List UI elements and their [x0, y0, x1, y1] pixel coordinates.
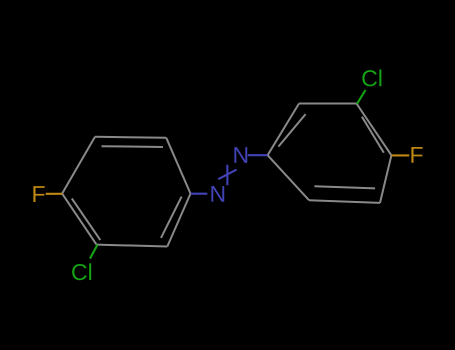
atom label Cl (right chlorine): [362, 70, 381, 87]
wire ring edge C4-C5: [62, 194, 96, 245]
wire double bond inner line C2=C3: [102, 145, 164, 148]
wire double bond inner line C4'=C5': [362, 117, 384, 153]
wire ring edge C4'-C5': [357, 104, 392, 156]
wire ring edge C1-C2: [166, 138, 190, 194]
wire ring edge C2-C3: [95, 136, 166, 139]
wire ring edge C5-C6: [97, 245, 168, 247]
wire double bond inner line C6'=C1': [278, 114, 305, 147]
wire ring edge C3'-C4': [380, 155, 391, 203]
wire ring edge C6'-C1': [268, 104, 299, 156]
bond N2-C1' (azo nitrogen to right ring): [248, 154, 268, 156]
atom label N2 (upper azo nitrogen): [234, 147, 247, 163]
wire ring edge C3-C4: [62, 137, 95, 194]
wire double bond inner line C6=C1: [161, 197, 182, 238]
atom label F (left fluorine): [33, 186, 44, 202]
atom label Cl (left chlorine): [72, 263, 91, 280]
wire double bond inner line C4=C5: [72, 198, 101, 240]
atom label F (right fluorine): [411, 147, 422, 163]
wire ring edge C1'-C2': [268, 155, 309, 200]
right benzene ring (3-chloro-4-fluorophenyl): [268, 104, 392, 203]
wire ring edge C2'-C3': [309, 200, 380, 203]
azo N=N crossed double bond line 1 (vertical): [226, 165, 228, 185]
bond C4-F (left ring to fluorine): [46, 193, 63, 195]
bond C1-N1 (left ring to azo nitrogen): [191, 193, 208, 195]
wire ring edge C6-C1: [167, 194, 190, 247]
bond C5'-Cl (right ring to chlorine): [357, 90, 366, 104]
atom label N1 (lower azo nitrogen): [211, 186, 224, 202]
wire ring edge C5'-C6': [299, 103, 357, 105]
bond C4'-F (right ring to fluorine): [391, 154, 409, 156]
wire double bond inner line C2'=C3': [314, 186, 375, 188]
left benzene ring (3-chloro-4-fluorophenyl): [62, 137, 190, 247]
azo N=N crossed double bond line 2 (diagonal): [218, 170, 236, 180]
bond C5-Cl (left ring to chlorine): [90, 245, 98, 259]
